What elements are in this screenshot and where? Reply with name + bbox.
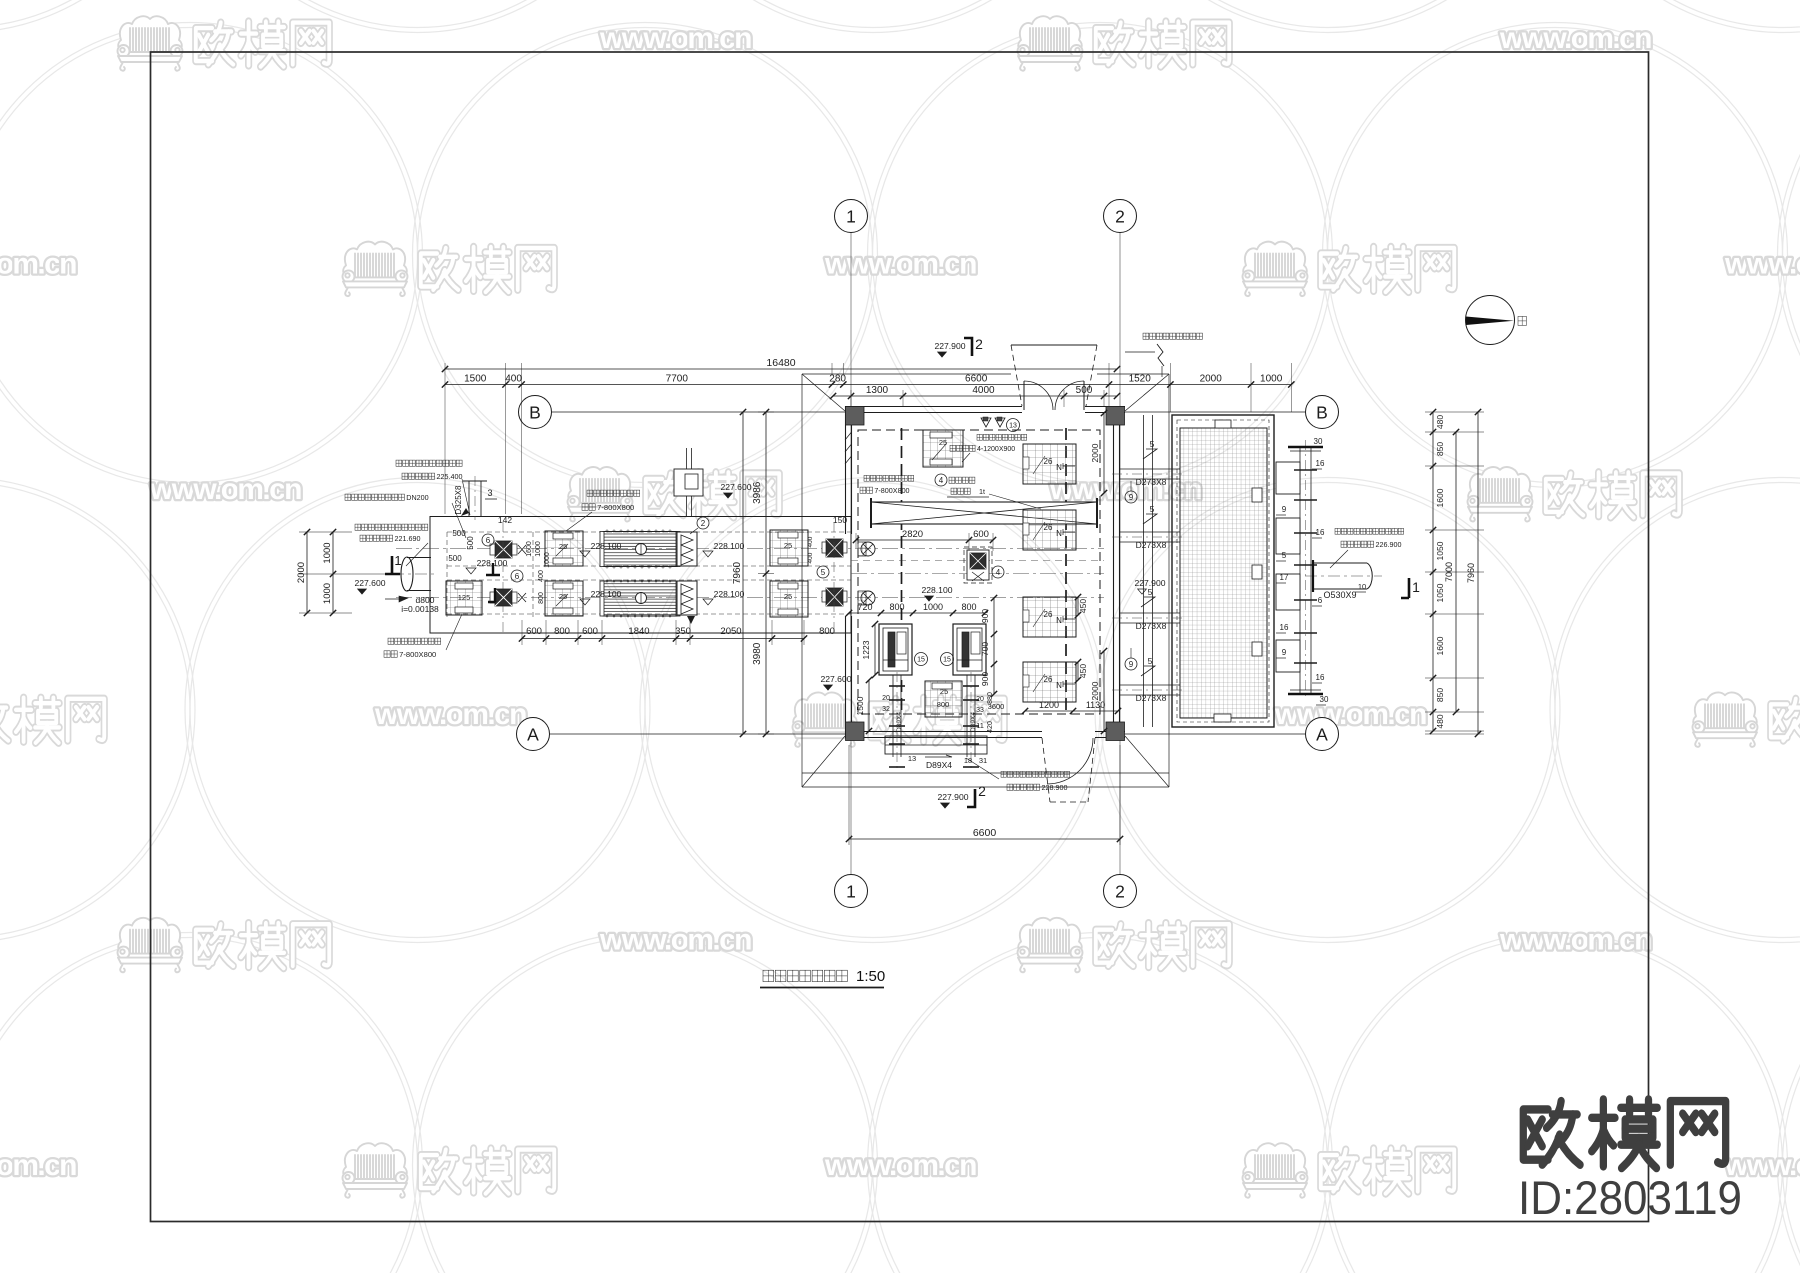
svg-text:5: 5 xyxy=(1150,504,1155,514)
right dim chain 480..480 xyxy=(1430,409,1445,734)
svg-text:25: 25 xyxy=(940,687,948,696)
svg-text:i=0.00138: i=0.00138 xyxy=(401,604,439,614)
train outline box xyxy=(430,517,851,634)
svg-text:B: B xyxy=(1316,402,1328,422)
svg-text:226.900: 226.900 xyxy=(1375,540,1401,549)
svg-text:227.900: 227.900 xyxy=(937,792,968,802)
svg-text:227.900: 227.900 xyxy=(1134,578,1165,588)
svg-text:A: A xyxy=(527,724,539,744)
top wall xyxy=(845,406,1022,408)
svg-text:N: N xyxy=(1056,681,1062,690)
svg-text:5: 5 xyxy=(1150,439,1155,449)
svg-text:3980: 3980 xyxy=(752,642,763,665)
svg-text:6: 6 xyxy=(1318,596,1323,605)
svg-text:420: 420 xyxy=(987,721,994,733)
cover plate label left xyxy=(864,475,914,481)
svg-text:26: 26 xyxy=(1044,610,1053,619)
svg-text:www.om.cn: www.om.cn xyxy=(149,473,303,506)
svg-text:D89X4: D89X4 xyxy=(896,712,903,732)
title 顶层工艺平面图1:50 xyxy=(760,968,885,988)
tank dashed inner xyxy=(1177,420,1269,722)
svg-text:2000: 2000 xyxy=(1090,443,1100,462)
svg-text:800: 800 xyxy=(554,626,570,637)
top door + hopper xyxy=(1011,344,1097,346)
dim 3986/3980 xyxy=(752,409,769,737)
svg-text:800: 800 xyxy=(538,592,545,604)
svg-text:15: 15 xyxy=(917,656,925,663)
svg-text:4-1200X900: 4-1200X900 xyxy=(977,446,1015,453)
svg-text:450: 450 xyxy=(1078,599,1088,613)
circled 9 labels xyxy=(1125,491,1137,503)
dim chain under train xyxy=(519,626,807,642)
heavy dashed internal walls xyxy=(901,428,903,716)
svg-text:30: 30 xyxy=(1320,695,1329,704)
svg-text:11: 11 xyxy=(976,721,984,730)
svg-text:20: 20 xyxy=(882,695,890,702)
svg-text:1300: 1300 xyxy=(866,385,889,396)
svg-text:N: N xyxy=(1056,529,1062,538)
svg-text:400: 400 xyxy=(807,536,814,547)
svg-text:3: 3 xyxy=(487,488,492,498)
bottom manifold xyxy=(885,736,987,754)
section flag 2 top xyxy=(964,338,972,356)
grid bubble 2 top xyxy=(1104,200,1137,233)
svg-text:480: 480 xyxy=(1435,415,1445,429)
grid bubble B right xyxy=(1306,396,1339,429)
svg-text:www.om.cn: www.om.cn xyxy=(374,698,528,731)
svg-text:1600: 1600 xyxy=(1435,636,1445,655)
svg-text:1: 1 xyxy=(846,881,856,901)
elevator блок E1 xyxy=(879,624,912,675)
leader texts top-left xyxy=(396,460,462,466)
interior dim chain 720/800/1000/800 xyxy=(846,602,988,616)
svg-text:15: 15 xyxy=(943,656,951,663)
svg-text:7960: 7960 xyxy=(1466,563,1476,583)
svg-text:221.690: 221.690 xyxy=(394,534,420,543)
header pipe vertical between building and tank xyxy=(1143,415,1145,727)
svg-text:ID:2803119: ID:2803119 xyxy=(1518,1171,1742,1224)
2000 dims inside xyxy=(1090,410,1107,496)
svg-text:D89X4: D89X4 xyxy=(970,712,977,732)
svg-text:850: 850 xyxy=(1435,688,1445,702)
svg-text:7-800X800: 7-800X800 xyxy=(874,486,909,495)
bottom-center block 25 xyxy=(925,681,962,717)
stub fittings right of tank xyxy=(1299,447,1301,694)
gridline B horizontal xyxy=(552,411,845,413)
tank hatch xyxy=(1180,428,1267,718)
svg-text:B: B xyxy=(529,402,541,422)
dim 7960 mid xyxy=(732,409,746,737)
dimension 16480 overall xyxy=(442,357,1120,372)
svg-text:2000: 2000 xyxy=(296,562,307,583)
leader to grit chamber right xyxy=(1335,528,1404,534)
svg-text:2: 2 xyxy=(1115,206,1125,226)
leader text bottom-left xyxy=(388,638,441,644)
train inner dashed walls xyxy=(447,531,851,533)
svg-text:2: 2 xyxy=(701,519,706,528)
svg-text:880: 880 xyxy=(987,692,994,704)
pump P1 top xyxy=(495,541,512,558)
top dim chain 2 xyxy=(830,385,1120,399)
svg-text:1000: 1000 xyxy=(322,542,333,563)
svg-text:2820: 2820 xyxy=(902,529,923,540)
svg-text:6: 6 xyxy=(515,572,520,581)
svg-text:800: 800 xyxy=(819,626,835,637)
svg-text:2050: 2050 xyxy=(720,626,741,637)
svg-text:800: 800 xyxy=(889,602,904,612)
svg-text:1000: 1000 xyxy=(322,583,333,604)
gridline A horizontal xyxy=(550,733,845,735)
svg-text:25: 25 xyxy=(784,592,792,601)
svg-text:3986: 3986 xyxy=(752,481,763,504)
svg-text:26: 26 xyxy=(1044,675,1053,684)
dim 2820/600 xyxy=(853,529,996,543)
svg-text:32: 32 xyxy=(882,706,890,713)
svg-text:16480: 16480 xyxy=(766,357,795,369)
svg-text:600: 600 xyxy=(973,529,989,540)
thick T marks xyxy=(486,563,500,575)
svg-text:7700: 7700 xyxy=(666,374,689,385)
svg-text:26: 26 xyxy=(1044,457,1053,466)
svg-text:16: 16 xyxy=(1316,673,1325,682)
riser pipe with cap near 690 xyxy=(686,448,688,516)
svg-text:25: 25 xyxy=(784,541,792,550)
interior vertical 900/700/900 xyxy=(980,595,997,697)
svg-text:228.100: 228.100 xyxy=(714,589,745,599)
left dim 2000 xyxy=(296,529,310,616)
svg-text:142: 142 xyxy=(498,515,512,525)
svg-text:N: N xyxy=(1056,463,1062,472)
D273X8 branch pipes xyxy=(1120,468,1180,470)
svg-text:7-800X800: 7-800X800 xyxy=(597,503,634,512)
svg-text:900: 900 xyxy=(980,609,990,623)
svg-text:www.om.cn: www.om.cn xyxy=(599,22,753,55)
svg-text:1050: 1050 xyxy=(1435,583,1445,602)
svg-text:7-800X800: 7-800X800 xyxy=(399,650,436,659)
svg-text:D273X8: D273X8 xyxy=(1136,693,1167,703)
grid bubble 1 top xyxy=(835,200,868,233)
tank outer rect xyxy=(1172,415,1274,727)
leader bottom right (to grit tank) xyxy=(1001,771,1070,777)
pumps P2 xyxy=(826,539,843,557)
svg-text:4000: 4000 xyxy=(972,385,995,396)
right dim 7960 xyxy=(1466,409,1481,737)
section flag 2 bottom xyxy=(967,789,975,807)
svg-text:30: 30 xyxy=(1314,437,1323,446)
svg-text:1200: 1200 xyxy=(1039,700,1059,710)
svg-text:17: 17 xyxy=(1280,573,1289,582)
svg-text:228.100: 228.100 xyxy=(921,585,952,595)
svg-text:228.100: 228.100 xyxy=(477,558,508,568)
svg-text:228.100: 228.100 xyxy=(591,589,622,599)
grid bubble B left xyxy=(519,396,552,429)
sheet border frame xyxy=(151,52,1649,1222)
svg-text:1: 1 xyxy=(394,553,401,568)
AAA screen bottom xyxy=(677,581,697,615)
svg-text:480: 480 xyxy=(1435,714,1445,728)
equip box 125 xyxy=(446,581,482,615)
svg-text:700: 700 xyxy=(980,642,990,656)
svg-text:450: 450 xyxy=(1078,664,1088,678)
svg-text:D273X8: D273X8 xyxy=(1136,540,1167,550)
bottom dim 6600 xyxy=(846,827,1123,842)
hatched blocks 26 xyxy=(1023,444,1076,484)
svg-text:1500: 1500 xyxy=(464,374,487,385)
svg-text:9: 9 xyxy=(1129,660,1134,669)
svg-text:600: 600 xyxy=(526,626,542,637)
svg-text:1840: 1840 xyxy=(628,626,649,637)
svg-text:400: 400 xyxy=(505,374,522,385)
grid bubble A right xyxy=(1306,718,1339,751)
svg-text:DN200: DN200 xyxy=(406,493,428,502)
svg-text:850: 850 xyxy=(1435,442,1445,456)
right wall xyxy=(1113,406,1115,731)
grid bubble A left xyxy=(517,718,550,751)
svg-text:600: 600 xyxy=(582,626,598,637)
svg-text:www.om.cn: www.om.cn xyxy=(1499,22,1653,55)
svg-text:400: 400 xyxy=(538,570,545,582)
heat exchanger bottom xyxy=(603,581,677,616)
25 boxes set1 xyxy=(545,531,583,566)
center pump unit 4 xyxy=(964,547,992,583)
svg-text:1050: 1050 xyxy=(1435,541,1445,560)
svg-text:5: 5 xyxy=(1282,551,1287,560)
gridline 2 vertical xyxy=(1119,232,1121,875)
svg-text:2000: 2000 xyxy=(1090,681,1100,700)
svg-text:1520: 1520 xyxy=(1129,374,1152,385)
svg-text:1000: 1000 xyxy=(535,541,542,557)
top dim chain xyxy=(442,374,1295,388)
svg-text:www.om.cn: www.om.cn xyxy=(0,1149,78,1182)
svg-text:33: 33 xyxy=(976,707,984,714)
building outer apron xyxy=(802,373,1011,375)
watermark logos grid xyxy=(118,16,330,70)
svg-text:5: 5 xyxy=(821,568,826,577)
svg-text:7960: 7960 xyxy=(732,561,743,584)
train centerlines xyxy=(396,548,1104,550)
svg-text:228.900: 228.900 xyxy=(1041,783,1067,792)
svg-text:9: 9 xyxy=(1282,505,1287,514)
bottom wall xyxy=(845,731,1042,733)
svg-text:800: 800 xyxy=(961,602,976,612)
svg-text:www.om.cn: www.om.cn xyxy=(599,924,753,957)
svg-text:227.600: 227.600 xyxy=(354,578,385,588)
svg-text:350: 350 xyxy=(675,626,691,637)
svg-text:500: 500 xyxy=(466,536,475,550)
svg-text:227.600: 227.600 xyxy=(820,674,851,684)
svg-text:2: 2 xyxy=(975,336,983,352)
svg-text:26: 26 xyxy=(1044,523,1053,532)
right dim 7000 xyxy=(1444,429,1459,715)
svg-text:D273X8: D273X8 xyxy=(1136,621,1167,631)
svg-text:A: A xyxy=(1316,724,1328,744)
svg-text:www.om.cn: www.om.cn xyxy=(1499,924,1653,957)
svg-text:1130: 1130 xyxy=(1086,700,1105,710)
svg-text:20: 20 xyxy=(976,696,984,703)
om.cn big logo xyxy=(1523,1099,1725,1168)
tank tabs xyxy=(1215,420,1231,428)
svg-text:280: 280 xyxy=(829,374,846,385)
svg-text:1t: 1t xyxy=(979,487,985,496)
25 boxes set2 xyxy=(770,530,808,566)
svg-text:1600: 1600 xyxy=(526,541,533,557)
pump P1 bottom xyxy=(495,589,512,606)
svg-text:31: 31 xyxy=(979,756,987,765)
leader rain inspection well xyxy=(1143,333,1202,339)
elevator block E2 xyxy=(953,624,986,675)
svg-text:1: 1 xyxy=(846,206,856,226)
svg-text:10: 10 xyxy=(1358,582,1366,591)
svg-text:2: 2 xyxy=(978,783,986,799)
svg-text:18: 18 xyxy=(964,756,972,765)
svg-text:1500: 1500 xyxy=(855,696,865,715)
bottom door xyxy=(1042,738,1050,802)
left wall xyxy=(845,406,847,534)
svg-text:www.om.cn: www.om.cn xyxy=(824,247,978,280)
svg-text:4: 4 xyxy=(939,476,944,485)
svg-text:16: 16 xyxy=(1280,623,1289,632)
svg-text:1000: 1000 xyxy=(1260,374,1283,385)
svg-text:1: 1 xyxy=(1412,579,1420,595)
svg-text:6600: 6600 xyxy=(973,827,997,839)
bottom interior chain 1200/1130 xyxy=(1022,700,1121,714)
apron corner diagonals xyxy=(802,374,845,411)
top-left hatch block 25 xyxy=(923,430,963,467)
crane leader xyxy=(935,474,947,486)
svg-text:228.100: 228.100 xyxy=(714,541,745,551)
svg-text:1000: 1000 xyxy=(923,602,943,612)
svg-text:www.om.cn: www.om.cn xyxy=(0,247,78,280)
svg-text:6600: 6600 xyxy=(965,374,988,385)
interior tank dashed xyxy=(858,430,1100,714)
svg-text:400: 400 xyxy=(807,552,814,563)
outlet pipe O530X9 xyxy=(1313,562,1367,564)
svg-text:2: 2 xyxy=(1115,881,1125,901)
svg-text:227.900: 227.900 xyxy=(934,341,965,351)
grid bubble 2 bottom xyxy=(1104,875,1137,908)
in-building pumps at left wall xyxy=(861,542,875,556)
svg-text:228.100: 228.100 xyxy=(591,541,622,551)
AAA screen top xyxy=(677,532,697,566)
inlet pipe d800 xyxy=(401,557,413,591)
svg-text:5: 5 xyxy=(1148,656,1153,666)
svg-text:9: 9 xyxy=(1282,648,1287,657)
svg-text:www.om.cn: www.om.cn xyxy=(1724,247,1800,280)
svg-text:16: 16 xyxy=(1316,528,1325,537)
svg-text:900: 900 xyxy=(980,672,990,686)
vertical pipe D325X8 xyxy=(468,481,470,516)
svg-text:125: 125 xyxy=(458,593,471,602)
gridline 1 vertical xyxy=(850,232,852,875)
nabla marks + 13 xyxy=(981,418,1005,427)
svg-text:4: 4 xyxy=(996,568,1001,577)
svg-text:www.om.cn: www.om.cn xyxy=(1274,698,1428,731)
section flag 1 right xyxy=(1401,578,1409,598)
svg-text:225.400: 225.400 xyxy=(436,472,462,481)
svg-text:16: 16 xyxy=(1316,459,1325,468)
north arrow xyxy=(1466,296,1527,345)
svg-text:www.om.cn: www.om.cn xyxy=(824,1149,978,1182)
svg-text:1:50: 1:50 xyxy=(856,968,885,985)
svg-text:800: 800 xyxy=(937,700,950,709)
svg-text:1600: 1600 xyxy=(1435,488,1445,507)
pipes below elevators xyxy=(892,675,894,757)
heat exchanger top xyxy=(603,532,677,567)
svg-text:N: N xyxy=(1056,616,1062,625)
leader text mid (cover plate) xyxy=(587,490,640,496)
svg-text:227.600: 227.600 xyxy=(720,482,751,492)
svg-text:D273X8: D273X8 xyxy=(1136,477,1167,487)
svg-text:O530X9: O530X9 xyxy=(1323,590,1356,600)
svg-text:9: 9 xyxy=(1129,493,1134,502)
left dim 1000/1000 xyxy=(322,529,336,616)
svg-text:2000: 2000 xyxy=(1200,374,1223,385)
450 dims xyxy=(1075,594,1088,618)
svg-text:D325X8: D325X8 xyxy=(454,485,463,514)
crane beam xyxy=(871,502,1097,524)
svg-text:13: 13 xyxy=(908,754,916,763)
section flag 1 left xyxy=(385,556,400,574)
svg-text:1223: 1223 xyxy=(861,640,871,659)
svg-text:D89X4: D89X4 xyxy=(926,760,952,770)
corner columns xyxy=(846,407,865,426)
svg-text:5: 5 xyxy=(1148,587,1153,597)
svg-text:25: 25 xyxy=(939,438,947,447)
svg-text:13: 13 xyxy=(1009,422,1017,429)
grid bubble 1 bottom xyxy=(835,875,868,908)
svg-text:500: 500 xyxy=(448,554,462,563)
svg-text:6: 6 xyxy=(486,536,491,545)
